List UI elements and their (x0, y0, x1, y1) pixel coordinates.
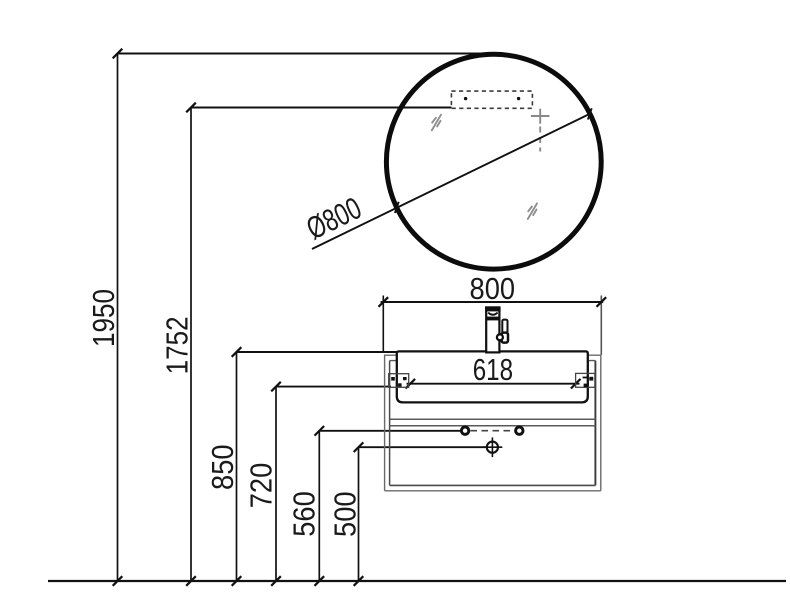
drain crosshair circle (483, 437, 503, 457)
dimension 1752 horizontal connector to mirror bracket (191, 107, 452, 109)
mirror mounting bracket dashed box (451, 91, 532, 108)
mirror circle (386, 54, 601, 269)
cabinet right wall (594, 361, 596, 486)
svg-text:1752: 1752 (160, 316, 195, 374)
dimension 720 ticks (271, 382, 281, 392)
faucet body (486, 307, 499, 352)
cabinet shelf lines (390, 418, 596, 420)
faucet spout mouth (488, 313, 497, 315)
dimension 560 horizontal connector to knob (319, 430, 461, 432)
dimension 1950 vertical line (117, 54, 119, 582)
glass symbol upper left (432, 115, 441, 131)
faucet handle base (502, 333, 508, 343)
cabinet top rail (384, 354, 601, 356)
dimension 850 horizontal connector to basin top (237, 351, 398, 353)
cabinet left wall (384, 355, 386, 491)
bracket screw dots (464, 97, 467, 100)
svg-text:850: 850 (206, 444, 240, 490)
svg-text:618: 618 (473, 352, 513, 387)
right slide bracket (576, 373, 595, 387)
glass symbol lower right (528, 203, 537, 219)
dimension 720 vertical line (275, 387, 277, 581)
svg-text:1950: 1950 (87, 289, 122, 347)
svg-text:500: 500 (329, 491, 363, 537)
dimension 500 horizontal connector to drain (359, 446, 488, 448)
diameter ticks on circle (395, 202, 399, 213)
dimension 618 ticks (406, 379, 416, 389)
dimension 560 vertical line (318, 431, 320, 581)
dimension 850 ticks (232, 347, 242, 357)
dimension 1752 vertical line (190, 108, 192, 582)
faucet pivot (497, 334, 503, 340)
svg-text:720: 720 (245, 463, 279, 509)
left slide bracket (389, 374, 409, 388)
faucet handle stem (502, 320, 507, 334)
dimension 618 line (407, 383, 580, 385)
dimension 850 vertical line (236, 352, 238, 581)
faucet collar band (486, 317, 499, 321)
diameter leader line (312, 114, 591, 250)
faucet cap (485, 307, 501, 312)
dimension 720 horizontal connector to bracket (276, 386, 391, 388)
svg-text:560: 560 (288, 491, 322, 537)
knob circle right (516, 427, 523, 434)
dimension 800 line (381, 301, 604, 303)
dimension 560 ticks (315, 426, 325, 436)
centre cross mark (531, 109, 550, 152)
washbasin (397, 351, 588, 402)
knob circle left (461, 427, 468, 434)
dimension 1950 ticks (113, 49, 123, 59)
ground baseline (48, 580, 786, 582)
dimension 1950 horizontal connector to mirror top (118, 53, 494, 55)
dimension 800 extension lines (382, 296, 384, 352)
dimension 1752 ticks (186, 103, 196, 113)
dimension 500 ticks (354, 442, 364, 452)
dimension 800 ticks (379, 297, 389, 307)
svg-text:800: 800 (470, 273, 516, 307)
cabinet bottom (390, 484, 596, 486)
dashed link between knobs (471, 430, 515, 432)
dimension 500 vertical line (358, 447, 360, 581)
